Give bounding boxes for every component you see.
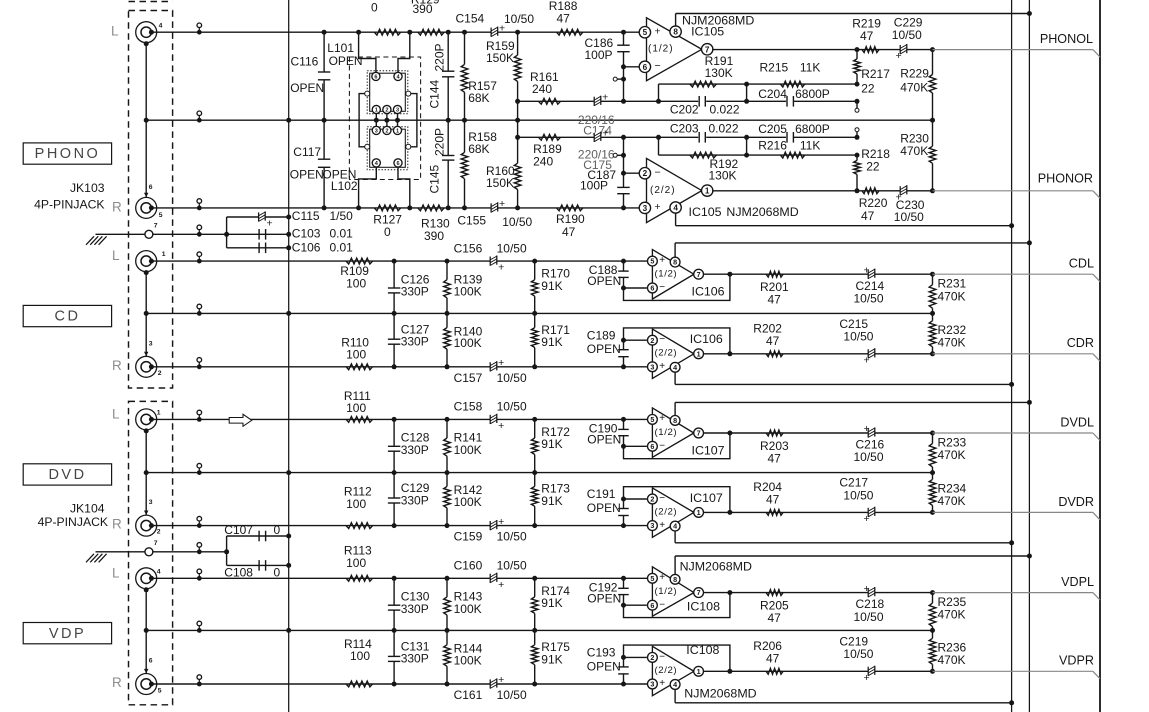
svg-text:+: + bbox=[267, 218, 273, 230]
resistor R236 470K bbox=[930, 669, 935, 674]
capacitor C116 OPEN bbox=[323, 32, 325, 72]
svg-text:6: 6 bbox=[650, 284, 654, 293]
svg-text:C189: C189 bbox=[587, 328, 616, 342]
wire DVDL to connector bbox=[933, 432, 1093, 434]
wire IC108 L feedback loop bbox=[624, 604, 647, 606]
svg-text:C203: C203 bbox=[670, 122, 699, 136]
svg-text:5: 5 bbox=[650, 415, 654, 424]
inductor block L101 bbox=[367, 71, 408, 114]
svg-text:1: 1 bbox=[375, 108, 378, 114]
wire ground line to bracket bbox=[152, 233, 288, 235]
svg-text:2: 2 bbox=[650, 495, 654, 504]
op-amp IC105 (2/2) bbox=[647, 158, 702, 222]
inductor block L102 bbox=[367, 127, 408, 170]
resistor R192 130K bbox=[690, 152, 716, 158]
svg-text:330P: 330P bbox=[401, 443, 429, 457]
svg-text:L: L bbox=[112, 565, 120, 580]
capacitor C203 0.022 bbox=[698, 131, 706, 143]
wire IC105 pin8 to V+ rail bbox=[675, 14, 677, 27]
wire feedback row C203 bbox=[518, 136, 857, 138]
capacitor C230 10/50 bbox=[900, 186, 907, 196]
svg-text:4P-PINJACK: 4P-PINJACK bbox=[34, 197, 104, 211]
svg-text:5: 5 bbox=[650, 257, 654, 266]
op-amp IC107 (2/2) bbox=[652, 488, 694, 537]
wire jack link CD bbox=[145, 272, 147, 357]
wire VDPR output line bbox=[704, 670, 933, 672]
svg-text:470K: 470K bbox=[938, 448, 966, 462]
svg-text:8: 8 bbox=[673, 258, 677, 267]
svg-text:C191: C191 bbox=[587, 487, 616, 501]
svg-text:(2/2): (2/2) bbox=[655, 506, 678, 517]
wire CDR output line bbox=[704, 353, 933, 355]
resistor R143 100K bbox=[446, 578, 448, 597]
svg-text:10/50: 10/50 bbox=[497, 530, 527, 544]
resistor R203 47 bbox=[766, 430, 783, 436]
wire IC108 pin4 to V- rail bbox=[674, 689, 676, 702]
svg-text:+: + bbox=[602, 92, 608, 104]
svg-text:+: + bbox=[864, 264, 870, 276]
svg-text:8: 8 bbox=[673, 575, 677, 584]
svg-text:C117: C117 bbox=[293, 145, 321, 159]
svg-text:47: 47 bbox=[860, 29, 874, 43]
capacitor C129 330P bbox=[393, 473, 395, 498]
capacitor C130 330P bbox=[393, 578, 395, 605]
left shield bus bbox=[288, 0, 290, 712]
svg-text:OPEN: OPEN bbox=[587, 591, 621, 605]
svg-text:+: + bbox=[659, 361, 665, 372]
jack DVD R bbox=[136, 515, 157, 536]
capacitor C174 220/16 bbox=[594, 96, 601, 106]
resistor R191 130K bbox=[690, 81, 716, 87]
svg-text:DVD: DVD bbox=[48, 467, 86, 483]
svg-text:(1/2): (1/2) bbox=[655, 269, 678, 280]
svg-text:+: + bbox=[659, 520, 665, 531]
svg-text:C204: C204 bbox=[758, 87, 787, 101]
capacitor C204 6800P bbox=[786, 95, 794, 107]
capacitor C215 10/50 bbox=[868, 349, 875, 359]
capacitor C214 10/50 bbox=[868, 269, 875, 279]
svg-text:+: + bbox=[498, 579, 504, 591]
svg-text:91K: 91K bbox=[541, 279, 562, 293]
resistor R144 100K bbox=[446, 630, 448, 644]
svg-text:IC105: IC105 bbox=[689, 205, 722, 219]
svg-text:R: R bbox=[112, 199, 122, 214]
wire IC105 output PHONOR bbox=[712, 190, 932, 192]
svg-text:L: L bbox=[112, 248, 120, 263]
svg-text:(2/2): (2/2) bbox=[650, 185, 676, 196]
resistor R218 22 bbox=[856, 155, 858, 160]
svg-text:C161: C161 bbox=[454, 688, 483, 702]
svg-text:6: 6 bbox=[374, 74, 377, 80]
svg-text:2: 2 bbox=[643, 169, 648, 178]
wire VDP R input line bbox=[151, 683, 647, 685]
capacitor C144 220P bbox=[447, 32, 449, 71]
svg-text:100P: 100P bbox=[580, 178, 608, 192]
svg-text:5: 5 bbox=[159, 212, 163, 219]
svg-text:330P: 330P bbox=[401, 335, 429, 349]
svg-text:OPEN: OPEN bbox=[587, 501, 621, 515]
svg-text:330P: 330P bbox=[401, 602, 429, 616]
svg-text:+: + bbox=[896, 50, 902, 62]
svg-text:+: + bbox=[498, 420, 504, 432]
svg-text:4: 4 bbox=[673, 204, 678, 213]
svg-text:C106: C106 bbox=[292, 241, 321, 255]
inductor L101 L102 dashed box bbox=[349, 57, 420, 180]
resistor R229 470K bbox=[930, 47, 935, 52]
resistor R235 470K bbox=[930, 590, 935, 595]
svg-text:C115: C115 bbox=[292, 209, 320, 223]
svg-text:0: 0 bbox=[274, 565, 281, 579]
jack CD L bbox=[136, 251, 157, 272]
svg-text:6: 6 bbox=[650, 442, 654, 451]
resistor R188 47 bbox=[557, 29, 583, 35]
capacitor C108 0 bbox=[258, 560, 260, 571]
svg-text:6: 6 bbox=[650, 601, 654, 610]
svg-text:JK104: JK104 bbox=[70, 502, 105, 516]
svg-text:−: − bbox=[659, 493, 665, 504]
svg-text:C108: C108 bbox=[224, 565, 253, 579]
svg-text:L: L bbox=[112, 406, 120, 421]
svg-text:390: 390 bbox=[413, 2, 433, 16]
svg-text:PHONOR: PHONOR bbox=[1038, 172, 1093, 186]
svg-text:100: 100 bbox=[346, 401, 366, 415]
wire DVD R input line bbox=[151, 525, 647, 527]
svg-text:100K: 100K bbox=[454, 443, 482, 457]
svg-text:3: 3 bbox=[650, 680, 654, 689]
svg-text:4: 4 bbox=[673, 363, 677, 372]
svg-text:6800P: 6800P bbox=[795, 87, 830, 101]
svg-text:1: 1 bbox=[157, 409, 161, 416]
wire jack link VDP bbox=[145, 589, 147, 674]
svg-text:C145: C145 bbox=[428, 164, 442, 193]
connector JK103 dashed outline bbox=[129, 1, 173, 3]
svg-text:100K: 100K bbox=[454, 336, 482, 350]
svg-text:L: L bbox=[111, 24, 119, 39]
svg-text:10/50: 10/50 bbox=[843, 488, 873, 502]
svg-text:−: − bbox=[659, 440, 665, 451]
svg-text:47: 47 bbox=[562, 225, 576, 239]
wire VDPL output line bbox=[704, 592, 933, 594]
test point stub IC105 pin2 bbox=[621, 153, 626, 158]
wire PHONOR to connector bbox=[933, 190, 1093, 192]
svg-text:10/50: 10/50 bbox=[497, 559, 527, 573]
svg-text:470K: 470K bbox=[938, 289, 966, 303]
capacitor C187 100P bbox=[623, 137, 625, 187]
capacitor C219 10/50 bbox=[868, 666, 875, 676]
svg-text:4P-PINJACK: 4P-PINJACK bbox=[38, 515, 108, 529]
svg-text:5: 5 bbox=[158, 687, 162, 694]
svg-text:47: 47 bbox=[768, 611, 782, 625]
resistor R140 100K bbox=[446, 313, 448, 327]
svg-text:R229: R229 bbox=[900, 67, 929, 81]
resistor R206 47 bbox=[766, 668, 783, 674]
svg-text:91K: 91K bbox=[541, 596, 562, 610]
resistor R172 91K bbox=[534, 419, 536, 438]
svg-text:VDP: VDP bbox=[49, 626, 86, 642]
capacitor C161 10/50 bbox=[490, 679, 497, 689]
svg-text:0.022: 0.022 bbox=[710, 102, 740, 116]
svg-text:C103: C103 bbox=[292, 226, 321, 240]
svg-text:(1/2): (1/2) bbox=[648, 44, 674, 55]
wire V- rail IC105 bbox=[676, 225, 1012, 227]
V- supply bus bbox=[1011, 0, 1013, 712]
resistor R112 100 bbox=[346, 523, 372, 529]
svg-text:JK103: JK103 bbox=[70, 181, 105, 195]
svg-text:470K: 470K bbox=[938, 336, 966, 350]
capacitor C117 OPEN bbox=[323, 120, 325, 159]
label PHONO box bbox=[23, 143, 111, 164]
svg-text:−: − bbox=[655, 167, 661, 179]
capacitor C216 10/50 bbox=[868, 428, 875, 438]
svg-text:C158: C158 bbox=[454, 400, 483, 414]
svg-text:8: 8 bbox=[673, 28, 678, 37]
svg-text:68K: 68K bbox=[468, 142, 489, 156]
svg-text:10/50: 10/50 bbox=[497, 688, 527, 702]
svg-text:470K: 470K bbox=[938, 494, 966, 508]
svg-text:C202: C202 bbox=[670, 102, 699, 116]
svg-text:7: 7 bbox=[154, 223, 158, 230]
connector JK104 dashed outline bbox=[129, 401, 173, 704]
svg-text:330P: 330P bbox=[401, 285, 429, 299]
svg-text:CD: CD bbox=[55, 309, 81, 325]
wire L101 L102 center pins bbox=[375, 114, 377, 127]
svg-text:240: 240 bbox=[532, 82, 552, 96]
capacitor C218 10/50 bbox=[868, 588, 875, 598]
svg-text:22: 22 bbox=[861, 82, 875, 96]
svg-text:+: + bbox=[659, 413, 665, 424]
svg-text:5: 5 bbox=[643, 28, 648, 37]
svg-text:IC107: IC107 bbox=[692, 443, 725, 457]
capacitor C128 330P bbox=[393, 419, 395, 446]
svg-text:470K: 470K bbox=[938, 653, 966, 667]
svg-text:0.01: 0.01 bbox=[330, 226, 354, 240]
svg-text:3: 3 bbox=[375, 128, 378, 134]
svg-text:91K: 91K bbox=[541, 652, 562, 666]
pin 7 ground terminal bbox=[145, 230, 153, 238]
svg-text:L102: L102 bbox=[331, 179, 358, 193]
svg-text:7: 7 bbox=[705, 45, 710, 54]
resistor R113 100 bbox=[346, 575, 372, 581]
svg-text:+: + bbox=[864, 423, 870, 435]
svg-text:DVDR: DVDR bbox=[1058, 495, 1094, 509]
svg-text:C156: C156 bbox=[454, 241, 483, 255]
svg-text:C205: C205 bbox=[758, 122, 787, 136]
ground symbol JK103 bbox=[86, 236, 94, 245]
svg-text:IC106: IC106 bbox=[692, 285, 725, 299]
capacitor C157 10/50 bbox=[490, 362, 497, 372]
svg-text:1: 1 bbox=[697, 667, 701, 676]
svg-text:VDPR: VDPR bbox=[1059, 654, 1094, 668]
wire IC105 pin2 lead bbox=[624, 172, 641, 174]
svg-text:91K: 91K bbox=[541, 335, 562, 349]
svg-text:0.01: 0.01 bbox=[330, 241, 354, 255]
capacitor C188 OPEN bbox=[621, 259, 626, 264]
capacitor C131 330P bbox=[393, 630, 395, 656]
resistor R204 47 bbox=[766, 510, 783, 516]
wire feedback row R191 bbox=[659, 83, 858, 85]
right edge bus bbox=[1099, 0, 1101, 712]
jack DVD L bbox=[136, 409, 157, 430]
svg-text:C157: C157 bbox=[454, 371, 483, 385]
svg-text:+: + bbox=[498, 357, 504, 369]
svg-text:C154: C154 bbox=[456, 12, 485, 26]
label VDP box bbox=[23, 623, 111, 644]
svg-text:2: 2 bbox=[650, 653, 654, 662]
svg-text:R: R bbox=[112, 516, 122, 531]
resistor R158 68K bbox=[464, 120, 466, 152]
svg-text:+: + bbox=[659, 255, 665, 266]
op-amp IC105 (1/2) bbox=[647, 18, 702, 81]
wire cap bracket JK104 bbox=[226, 536, 228, 565]
wire PHONO L line bbox=[151, 31, 640, 33]
wire PHONO mid line bbox=[146, 119, 932, 121]
svg-text:−: − bbox=[659, 334, 665, 345]
wire DVDR to connector bbox=[933, 511, 1093, 513]
svg-text:C107: C107 bbox=[224, 523, 253, 537]
wire VDP L input line bbox=[151, 577, 647, 579]
svg-text:R215: R215 bbox=[760, 60, 789, 74]
jack VDP L bbox=[136, 568, 157, 589]
test point below R217 bbox=[856, 101, 858, 108]
svg-text:R216: R216 bbox=[758, 139, 787, 153]
resistor R220 47 bbox=[862, 188, 879, 194]
capacitor C160 10/50 bbox=[490, 573, 497, 583]
wire CDL output line bbox=[704, 273, 933, 275]
svg-text:OPEN: OPEN bbox=[587, 274, 621, 288]
svg-text:OPEN: OPEN bbox=[290, 81, 324, 95]
wire feedback row R161 bbox=[518, 100, 857, 102]
wire IC108 pin8 to V+ rail bbox=[674, 556, 676, 574]
resistor R202 47 bbox=[766, 351, 783, 357]
svg-text:3: 3 bbox=[650, 521, 654, 530]
wire V+ rail IC108 bbox=[675, 555, 1029, 557]
svg-text:IC105: IC105 bbox=[691, 25, 724, 39]
svg-text:240: 240 bbox=[533, 154, 553, 168]
svg-text:220P: 220P bbox=[433, 128, 447, 156]
svg-text:0.022: 0.022 bbox=[709, 122, 739, 136]
wire ground lead bbox=[96, 233, 146, 235]
svg-text:10/50: 10/50 bbox=[843, 330, 873, 344]
capacitor C154 10/50 bbox=[491, 27, 498, 37]
resistor R205 47 bbox=[766, 590, 783, 596]
svg-text:10/50: 10/50 bbox=[502, 215, 532, 229]
svg-text:100: 100 bbox=[346, 348, 366, 362]
svg-text:7: 7 bbox=[697, 270, 701, 279]
wire V+ rail IC107 bbox=[675, 401, 1029, 403]
capacitor C127 330P bbox=[393, 313, 395, 339]
resistor R201 47 bbox=[766, 271, 783, 277]
svg-text:R217: R217 bbox=[861, 67, 890, 81]
svg-text:1: 1 bbox=[162, 251, 166, 258]
capacitor C115 1/50 bbox=[259, 212, 266, 222]
capacitor C217 10/50 bbox=[868, 508, 875, 518]
svg-text:100K: 100K bbox=[454, 495, 482, 509]
svg-text:11K: 11K bbox=[800, 139, 820, 153]
resistor R160 150K bbox=[517, 120, 519, 163]
resistor R216 11K bbox=[780, 152, 804, 158]
jack VDP R bbox=[136, 674, 157, 695]
svg-text:68K: 68K bbox=[468, 91, 489, 105]
svg-text:DVDL: DVDL bbox=[1060, 415, 1094, 429]
svg-text:R: R bbox=[112, 358, 122, 373]
svg-text:OPEN: OPEN bbox=[587, 342, 621, 356]
svg-text:22: 22 bbox=[866, 159, 880, 173]
svg-text:2: 2 bbox=[385, 128, 388, 134]
svg-text:3: 3 bbox=[149, 340, 153, 347]
op-amp IC106 (2/2) bbox=[652, 329, 694, 378]
svg-text:47: 47 bbox=[766, 334, 780, 348]
svg-text:−: − bbox=[659, 599, 665, 610]
svg-text:4: 4 bbox=[673, 680, 677, 689]
capacitor C175 220/16 bbox=[594, 132, 601, 142]
resistor R141 100K bbox=[446, 419, 448, 438]
wire V+ rail IC106 bbox=[675, 242, 1029, 244]
wire DVDL output line bbox=[704, 432, 933, 434]
wire IC107 pin4 to V- rail bbox=[674, 531, 676, 543]
svg-text:3: 3 bbox=[149, 499, 153, 506]
svg-text:NJM2068MD: NJM2068MD bbox=[684, 687, 756, 701]
resistor 0 (top line) bbox=[374, 29, 400, 35]
capacitor C156 10/50 bbox=[490, 256, 497, 266]
svg-text:+: + bbox=[864, 354, 870, 366]
capacitor C189 OPEN bbox=[621, 338, 626, 343]
ground symbol JK104 bbox=[86, 554, 94, 563]
svg-text:2: 2 bbox=[157, 528, 161, 535]
svg-text:470K: 470K bbox=[938, 608, 966, 622]
svg-text:C155: C155 bbox=[457, 214, 486, 228]
wire CD R input line bbox=[151, 366, 647, 368]
capacitor C190 OPEN bbox=[621, 417, 626, 422]
wire CDR to connector bbox=[933, 353, 1093, 355]
svg-text:150K: 150K bbox=[486, 176, 514, 190]
capacitor C193 OPEN bbox=[621, 655, 626, 660]
svg-text:10/50: 10/50 bbox=[504, 12, 534, 26]
wire IC105 pin6 lead bbox=[624, 66, 641, 68]
resistor R173 91K bbox=[534, 473, 536, 487]
resistor R215 11K bbox=[780, 81, 804, 87]
wire jack link DVD bbox=[145, 430, 147, 515]
svg-text:CDR: CDR bbox=[1067, 336, 1094, 350]
resistor R189 240 bbox=[539, 134, 561, 140]
wire CD mid line bbox=[146, 312, 932, 314]
capacitor C145 220P bbox=[447, 120, 449, 155]
svg-text:+: + bbox=[499, 198, 505, 210]
svg-text:150K: 150K bbox=[486, 51, 514, 65]
svg-text:PHONO: PHONO bbox=[35, 146, 101, 162]
svg-text:3: 3 bbox=[396, 108, 399, 114]
wire VDPL to connector bbox=[933, 592, 1093, 594]
wire V- rail IC108 bbox=[675, 702, 1012, 704]
svg-text:R: R bbox=[112, 675, 122, 690]
svg-text:10/50: 10/50 bbox=[892, 28, 922, 42]
resistor R170 91K bbox=[534, 261, 536, 280]
op-amp IC107 (1/2) bbox=[652, 408, 694, 457]
svg-text:IC106: IC106 bbox=[690, 332, 723, 346]
svg-text:C193: C193 bbox=[587, 646, 616, 660]
wire DVD mid line bbox=[146, 472, 932, 474]
svg-text:330P: 330P bbox=[401, 493, 429, 507]
wire IC107 pin8 to V+ rail bbox=[674, 402, 676, 415]
capacitor C159 10/50 bbox=[490, 521, 497, 531]
wire V+ rail IC105 bbox=[676, 13, 1030, 15]
svg-text:VDPL: VDPL bbox=[1061, 575, 1094, 589]
wire V- rail IC106 bbox=[675, 383, 1012, 385]
svg-text:4: 4 bbox=[673, 522, 677, 531]
svg-text:10/50: 10/50 bbox=[894, 210, 924, 224]
svg-text:10/50: 10/50 bbox=[854, 291, 884, 305]
resistor R232 470K bbox=[930, 351, 935, 356]
resistor 390 (top line) bbox=[418, 29, 444, 35]
